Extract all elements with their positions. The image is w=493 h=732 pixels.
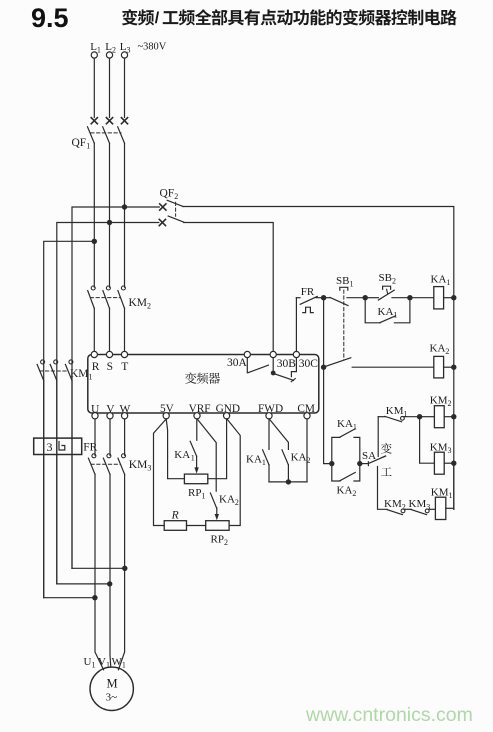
contactor KM1 main contact 2 [54,360,58,364]
svg-text:GND: GND [216,403,240,415]
pushbutton SB2 (NO start) [365,297,378,299]
contactor aux KM3 (NC interlock) [411,510,426,515]
node L1 [91,52,97,58]
node rail-km2 [451,414,456,419]
inverter relay contact 30B common [272,358,274,372]
inverter label 变频器 [185,372,196,383]
svg-text:KM2: KM2 [384,498,406,512]
relay contact KA2 (RP2 select) [210,493,216,508]
breaker QF1 pole1 [91,118,97,124]
wire R to RP2 [187,525,206,527]
wire KM2 coil to rail [444,416,454,418]
terminal VRF [194,413,200,419]
svg-text:KA2: KA2 [219,494,239,508]
terminal 5V [163,413,169,419]
terminal R [91,351,97,357]
svg-text:VRF: VRF [189,403,211,415]
svg-text:RP2: RP2 [211,534,228,548]
svg-text:9.5: 9.5 [31,3,69,33]
terminal 30A [244,351,250,357]
node group right [357,461,362,466]
contactor KM3 main contact 3 [122,454,126,458]
svg-text:KA: KA [174,449,190,461]
svg-text:M: M [107,677,118,691]
wire bypass L3 down [71,381,73,569]
terminal T [121,351,127,357]
contactor KM2 link [90,297,120,299]
svg-text:W: W [120,403,131,415]
node L3 [121,52,127,58]
terminal W [122,413,128,419]
wire QF2 top to right rail [183,207,454,298]
contactor KM2 main contact 3 [121,286,125,290]
relay contact KA1 (RP1 select) [190,441,196,456]
svg-text:KM1: KM1 [431,487,453,501]
breaker QF2 pole2 [159,219,165,225]
contactor aux KM1 (NC interlock) [378,416,385,418]
contactor KM3 main contact 1 [92,454,96,458]
wire KA2 coil to rail [444,366,454,368]
svg-text:30C: 30C [299,358,319,370]
terminal V [107,413,113,419]
wire L1 to KM2 [93,143,95,287]
contactor coil KM1 [435,497,445,519]
wire jog common [269,481,307,483]
svg-text:L2: L2 [105,41,116,55]
wire U drop [94,419,96,455]
wire to KM2 coil [420,416,435,418]
wire QF2 bottom to 30B [184,223,274,352]
relay contact KA2 (FWD) [282,450,288,465]
svg-text:KM2: KM2 [129,297,152,311]
wire bypass L1 down [43,381,45,598]
breaker QF2 link [175,202,177,216]
node L2 [106,52,112,58]
relay contact KA1 (to SA) [332,437,340,463]
wire bypass L2 down [56,381,58,584]
node rail-km3 [451,461,456,466]
svg-text:U: U [91,403,100,415]
wire FWD to KA2 branch [269,419,288,449]
contactor KM2 main contact 2 [106,286,110,290]
contactor coil KM3 [434,452,444,474]
breaker QF1 link [91,132,121,134]
svg-text:3: 3 [47,440,53,454]
wire VRF to KA1 [196,419,198,440]
inverter U1 box [88,355,319,414]
contactor coil KM2 [434,406,444,428]
svg-text:RP1: RP1 [188,487,205,501]
svg-text:KM2: KM2 [430,395,452,409]
terminal 30C [293,351,299,357]
svg-text:KA2: KA2 [337,485,357,499]
svg-text:T: T [121,361,128,373]
contactor KM3 main contact 2 [107,454,111,458]
node tap L1 [92,239,97,244]
svg-text:KM3: KM3 [430,442,452,456]
wire split down [420,417,435,464]
wire 5V to R [154,419,167,526]
node group left [329,461,334,466]
wire VRF to KA2 [197,419,216,491]
wire SA to line-mode rung [378,467,388,510]
node tap L3 [122,204,127,209]
breaker QF2 pole1 [160,204,166,210]
svg-text:KA1: KA1 [337,418,357,432]
svg-text:KA1: KA1 [246,454,266,468]
svg-text:KA1: KA1 [378,306,398,320]
node jog common [286,479,291,484]
wire V to motor [109,474,112,667]
svg-text:30A: 30A [227,357,248,369]
contactor KM1 link [40,370,68,372]
svg-text:~380V: ~380V [138,42,167,53]
wire SA to inverter-mode rung [377,417,379,457]
svg-text:/: / [155,10,160,27]
svg-text:R: R [92,361,100,373]
svg-text:U1: U1 [84,656,96,670]
wire KA1 to RP1 wiper arrow [196,456,198,468]
relay coil KA1 [434,287,444,309]
terminal FWD [266,413,272,419]
wire FWD to KA1 branch [268,419,270,449]
terminal U [92,413,98,419]
svg-text:KA2: KA2 [430,343,450,357]
wire rung1 to coil [410,297,434,299]
wire L2 to KM2 [109,143,111,287]
thermal relay FR heater symbol [59,442,65,451]
node bypass-V junction [107,581,112,586]
contactor KM3 link [91,463,121,465]
svg-text:3~: 3~ [106,692,118,704]
terminal CM [304,413,310,419]
wire V drop [109,419,111,455]
node km-split [417,414,422,419]
inverter relay contact 30C side [291,358,296,377]
svg-text:5V: 5V [160,403,175,415]
svg-text:V1: V1 [98,656,110,670]
svg-text:FR: FR [301,286,315,298]
svg-text:FWD: FWD [258,403,283,415]
wire L2 drop [109,58,111,117]
wire GND to RP1 [208,419,227,479]
wire tap L1 [44,241,95,597]
wire U to motor [95,474,104,670]
svg-text:QF1: QF1 [72,137,91,151]
contactor KM2 main contact 1 [91,286,95,290]
svg-text:KM1: KM1 [386,405,408,419]
potentiometer RP1 [184,474,207,484]
contactor aux KM2 (NC interlock) [387,510,402,515]
wire L3 drop [124,58,126,117]
relay coil KA2 [434,356,444,378]
svg-text:S: S [107,361,113,373]
node rail-rung2 [451,365,456,370]
svg-text:1: 1 [191,454,195,463]
node bypass-U junction [92,595,97,600]
potentiometer RP2 [206,521,229,531]
svg-text:SB1: SB1 [336,275,353,289]
svg-text:L1: L1 [90,41,101,55]
node bypass-W junction [122,566,127,571]
wire KA1 coil to rail [444,297,454,299]
thermal relay FR box [34,438,82,454]
relay contact KA1 (self hold) [365,298,380,323]
selector switch SA [360,463,369,465]
wire KM3 coil to rail [444,462,454,464]
wire right rail [453,298,455,510]
breaker QF1 pole3 [121,118,127,124]
wire W drop [124,419,126,455]
contactor KM1 main contact 3 [69,360,73,364]
wire L3 to KM2 [124,143,126,287]
node rung1-midrail [321,295,326,300]
breaker QF1 pole2 [106,118,112,124]
thermal contact FR (NC) [296,297,300,299]
svg-text:30B: 30B [277,358,297,370]
svg-text:QF2: QF2 [160,188,179,202]
svg-text:L3: L3 [120,41,131,55]
wire tap L2 [57,223,159,584]
terminal 30B [270,351,276,357]
terminal S [106,351,112,357]
svg-text:CM: CM [297,403,315,415]
node rung1 b [407,295,412,300]
wire W to motor [118,474,124,670]
inverter relay contact 30A side [246,358,248,373]
relay contact KA2 (to SA) [332,464,340,481]
svg-text:www.cntronics.com: www.cntronics.com [305,704,473,726]
wire L1 drop [93,58,95,117]
contactor KM1 main contact 1 [41,360,45,364]
resistor R [164,521,186,531]
svg-text:KM1: KM1 [70,368,93,382]
wire bypass L3 join [72,567,125,569]
node rung2-midrail [321,365,326,370]
wire mid rail [324,298,332,464]
selector position 工 [381,467,392,476]
wire KA2 to RP2 wiper arrow [216,508,218,515]
selector position 变 [381,443,392,454]
svg-text:W1: W1 [112,656,126,670]
wire tap L3 [72,207,159,568]
wire KM1 coil to rail [446,507,454,509]
svg-text:KA1: KA1 [431,274,451,288]
pushbutton contact SB1-linked (NO) [326,358,351,366]
svg-text:SA: SA [362,450,376,462]
svg-text:V: V [106,403,115,415]
wire bypass L1 join [44,597,95,599]
svg-text:SB2: SB2 [379,272,396,286]
wire bypass L2 join [57,583,110,585]
pushbutton SB1 (NC stop) [324,297,330,299]
relay contact KA1 (FWD) [263,450,269,465]
node rung1 a [363,295,368,300]
wire 30C to FR [295,298,297,352]
node rail-rung1 [451,295,456,300]
motor M circle [90,667,133,710]
wire 5V to RP1 [166,419,184,479]
svg-text:KM3: KM3 [409,498,431,512]
wire CM drop [306,419,308,482]
svg-text:R: R [171,509,179,521]
node tap L2 [107,220,112,225]
wire GND to RP2 [227,419,240,526]
svg-text:KM3: KM3 [129,459,152,473]
terminal GND [224,413,230,419]
